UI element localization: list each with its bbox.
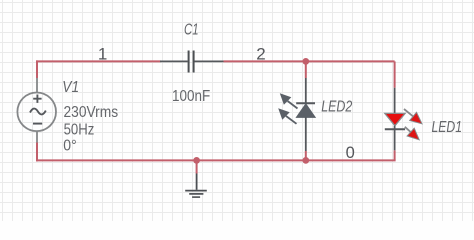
wire: LED2 branch lower stub — [305, 151, 307, 160]
svg-text:LED1: LED1 — [432, 119, 463, 136]
wire: left vertical upper stub above V1 — [36, 60, 38, 78]
LED1 emission arrow upper — [404, 109, 422, 124]
wire: LED1 branch upper stub — [394, 61, 396, 87]
wire: top net (node 2) from C1 to LED1 branch corner — [224, 60, 395, 62]
svg-text:LED2: LED2 — [321, 99, 352, 116]
wire: left vertical lower stub below V1 — [36, 143, 38, 162]
LED2 emission arrow upper — [280, 93, 298, 108]
svg-text:2: 2 — [256, 44, 265, 63]
svg-text:50Hz: 50Hz — [64, 122, 95, 139]
wire: LED2 branch upper stub — [305, 61, 307, 78]
LED2 (gray, cathode up) — [278, 78, 315, 151]
svg-text:0: 0 — [346, 144, 355, 162]
svg-text:1: 1 — [98, 45, 107, 64]
LED1 (red, cathode down) — [385, 88, 422, 151]
wire: bottom net (node 0) — [36, 159, 396, 161]
wire: LED1 branch lower stub — [394, 150, 396, 160]
LED1 emission arrow lower — [405, 127, 419, 140]
LED2 emission arrow lower — [278, 108, 296, 124]
wire: top net (node 1) from V1 to C1 — [36, 60, 161, 62]
junction: node 0 / ground — [193, 157, 200, 164]
svg-text:230Vrms: 230Vrms — [64, 104, 119, 121]
ground — [185, 174, 207, 198]
AC source V1 — [17, 78, 56, 143]
svg-text:100nF: 100nF — [172, 88, 210, 105]
capacitor C1 — [160, 51, 224, 73]
svg-text:V1: V1 — [62, 79, 79, 96]
svg-text:0°: 0° — [63, 138, 76, 155]
junction: node 0 / LED2 bottom — [302, 157, 309, 164]
wire: ground stub — [196, 160, 198, 173]
junction: node 2 / LED2 top — [302, 58, 309, 65]
svg-text:C1: C1 — [184, 21, 199, 38]
